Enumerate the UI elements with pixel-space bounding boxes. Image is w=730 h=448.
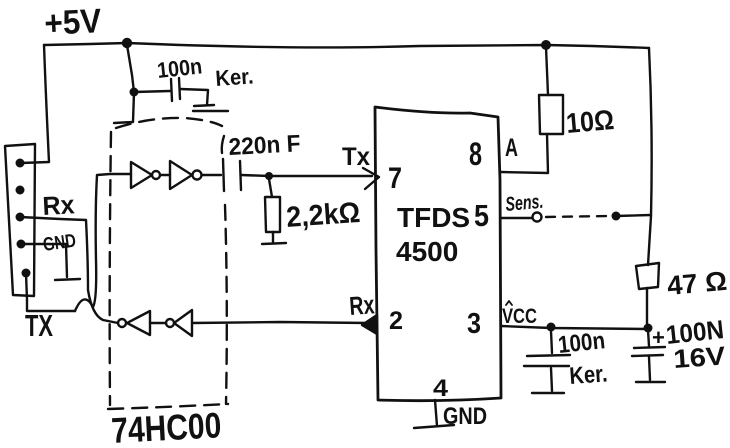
label +5V xyxy=(43,2,102,43)
resistor 47R lower lead xyxy=(646,288,648,326)
pin label 8 xyxy=(469,136,482,172)
label TX xyxy=(25,308,53,343)
capacitor 100u plates xyxy=(632,347,665,356)
wire: junction down to 74HC00 vcc xyxy=(114,92,134,123)
capacitor 100n Ker (vcc) upper lead xyxy=(551,331,552,353)
capacitor 100n Ker plates (top left) xyxy=(171,79,172,101)
label VCC xyxy=(502,305,537,328)
ground (2.2k) xyxy=(262,243,286,244)
pin4 GND stub xyxy=(435,400,437,426)
svg-text:Ker.: Ker. xyxy=(215,63,255,91)
label 47R xyxy=(666,266,728,301)
label 100u xyxy=(664,314,725,350)
wire: TX crossover hump xyxy=(75,299,93,311)
svg-text:Tx: Tx xyxy=(342,143,370,171)
svg-text:16V: 16V xyxy=(672,340,727,374)
wire: left drop from rail to connector pin1 xyxy=(21,45,49,163)
svg-text:Rx: Rx xyxy=(348,289,375,321)
capacitor 100n lower lead xyxy=(551,368,552,391)
label Ker. (top) xyxy=(215,63,255,91)
label Rx (pin2) xyxy=(348,289,375,321)
junction: 100n cap tap xyxy=(130,88,139,97)
wire: TFDS pin2 Rx to bottom inverter input xyxy=(192,322,368,323)
label 100n (vcc) xyxy=(557,327,607,359)
svg-text:100n: 100n xyxy=(557,327,607,359)
label TFDS xyxy=(397,202,470,233)
dashed box 74HC00: right edge xyxy=(222,136,224,153)
svg-text:10Ω: 10Ω xyxy=(565,104,616,139)
TFDS 4500 box U2 xyxy=(375,107,501,401)
resistor 10R body xyxy=(539,95,563,134)
inverter U1B (top right) xyxy=(170,161,192,189)
wire: cap to TFDS pin7 with Tx xyxy=(241,175,372,176)
pin label 3 xyxy=(467,308,481,340)
wire inverter to 220n cap xyxy=(202,174,221,176)
capacitor 100u lower lead xyxy=(649,357,650,380)
label A xyxy=(505,134,518,162)
resistor 2.2k lead xyxy=(269,179,272,197)
svg-text:4: 4 xyxy=(433,375,449,402)
wire: TX vertical up to top inverter input xyxy=(93,174,131,307)
ground (100n top) xyxy=(193,105,228,111)
svg-text:TX: TX xyxy=(25,308,53,343)
label 220nF xyxy=(228,130,301,161)
arrow into pin 7 xyxy=(363,168,379,189)
junction: rail / 100n tap xyxy=(122,38,132,48)
wire: +5V top rail xyxy=(44,43,649,48)
resistor 47R body xyxy=(636,263,659,289)
svg-text:3: 3 xyxy=(467,308,481,340)
svg-text:2: 2 xyxy=(389,307,403,335)
label 10R xyxy=(565,104,616,139)
dashed box 74HC00: top edge xyxy=(116,118,222,128)
resistor 2.2k lower lead xyxy=(272,232,274,242)
label Sens. xyxy=(505,191,545,216)
ground (connector) xyxy=(55,279,80,280)
svg-text:VCC: VCC xyxy=(502,305,537,328)
capacitor 100u upper lead xyxy=(648,330,649,346)
wire: rail tap down to 100n cap xyxy=(127,45,134,92)
svg-text:+5V: +5V xyxy=(43,2,102,43)
inverter U1A (top left) xyxy=(131,162,152,188)
pin label 7 xyxy=(388,162,402,195)
wire: junction to cap plate xyxy=(134,91,170,92)
label Tx xyxy=(342,143,370,171)
junction: rail / 10R xyxy=(541,40,551,50)
wire between bottom inverters xyxy=(150,322,166,324)
resistor 2.2k body xyxy=(265,197,280,232)
svg-text:GND: GND xyxy=(443,403,487,430)
label + (100u) xyxy=(652,325,665,350)
svg-text:74HC00: 74HC00 xyxy=(110,404,222,448)
label 4500 xyxy=(396,236,458,267)
ground (100n vcc) xyxy=(532,392,564,394)
ground (pin4) xyxy=(414,425,454,428)
junction: Tx / 2.2k xyxy=(265,172,273,180)
pin label 4 xyxy=(433,375,449,402)
dashed sens wire xyxy=(546,216,608,217)
wire: connector pin5 TX xyxy=(26,273,75,311)
ground (100u) xyxy=(636,381,665,383)
connector pin dots xyxy=(16,159,25,168)
svg-text:5: 5 xyxy=(474,198,489,233)
label Rx (connector) xyxy=(42,189,76,221)
wire: junction to right edge xyxy=(616,215,651,216)
pin label 5 xyxy=(474,198,489,233)
label 16V xyxy=(672,340,727,374)
connector J1 body xyxy=(5,144,35,296)
dashed box 74HC00: bottom edge xyxy=(108,404,228,409)
open circle pin5 xyxy=(533,213,542,222)
junction: vcc / 100n xyxy=(547,323,556,332)
label VCC accent xyxy=(506,301,512,305)
capacitor 100n Ker (vcc) plates xyxy=(524,355,570,366)
svg-text:TFDS: TFDS xyxy=(397,202,470,233)
resistor 10R top lead xyxy=(546,47,548,95)
wire: connector pin4 to ground xyxy=(21,244,67,277)
wire between inverters xyxy=(160,174,170,176)
wire: pin8 to 10R xyxy=(501,134,548,173)
wire cap to ground xyxy=(180,89,208,105)
svg-text:8: 8 xyxy=(469,136,482,172)
svg-text:220n F: 220n F xyxy=(228,130,301,161)
arrow out of pin 2 xyxy=(362,315,377,334)
label 74HC00 xyxy=(110,404,222,448)
inverter U1C (bottom right, points left) xyxy=(174,310,192,336)
wire: pin3 VCC rail xyxy=(501,326,648,329)
capacitor 220nF plates xyxy=(223,159,224,191)
label 100n (top) xyxy=(156,53,203,83)
wire: connector pin3 Rx to lower inverter output xyxy=(20,217,118,323)
label GND (connector) xyxy=(42,231,78,256)
label Ker. (vcc) xyxy=(569,360,609,390)
inverter U1D (bottom left, points left) xyxy=(127,311,150,335)
label GND (pin4) xyxy=(443,403,487,430)
svg-text:Ker.: Ker. xyxy=(569,360,609,390)
junction: vcc / 100u xyxy=(644,324,653,333)
junction: sens / right rail xyxy=(612,212,621,221)
svg-text:7: 7 xyxy=(388,162,402,195)
svg-text:Rx: Rx xyxy=(42,189,76,221)
svg-text:A: A xyxy=(505,134,518,162)
pin label 2 xyxy=(389,307,403,335)
label 2,2kOhm xyxy=(285,197,361,234)
wire: pin5 sens xyxy=(501,217,532,219)
svg-text:2,2kΩ: 2,2kΩ xyxy=(285,197,361,234)
wire: right edge vertical xyxy=(648,48,652,265)
svg-text:100n: 100n xyxy=(156,53,203,83)
dashed box 74HC00: left edge xyxy=(110,132,111,405)
svg-text:4500: 4500 xyxy=(396,236,458,267)
svg-text:47 Ω: 47 Ω xyxy=(666,266,728,301)
